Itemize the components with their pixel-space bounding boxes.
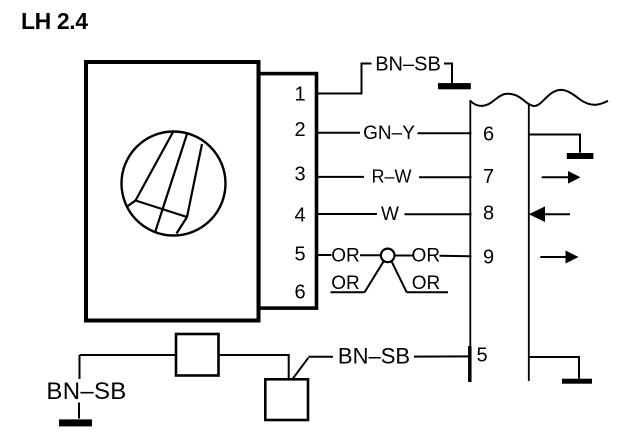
svg-text:7: 7 bbox=[483, 166, 494, 188]
wire diagonal from splice bbox=[392, 261, 407, 292]
connector block pins 1-6 bbox=[259, 74, 317, 309]
svg-text:OR: OR bbox=[331, 273, 360, 294]
svg-text:5: 5 bbox=[476, 345, 487, 367]
wire bottom left to relay box bbox=[80, 354, 177, 356]
svg-text:OR: OR bbox=[331, 246, 360, 267]
wire bbox=[418, 132, 472, 134]
ground (bottom left) bbox=[59, 419, 92, 426]
wire bbox=[395, 255, 413, 257]
svg-text:5: 5 bbox=[294, 244, 305, 266]
svg-text:BN–SB: BN–SB bbox=[338, 344, 410, 369]
wire diagonal to splice bbox=[365, 261, 384, 292]
signal arrow right (pin7 row) bbox=[542, 176, 568, 178]
svg-text:R–W: R–W bbox=[372, 167, 412, 187]
bus pin 5 contact mark bbox=[468, 346, 472, 382]
ground (pin5 row) bbox=[562, 379, 592, 384]
wire down to BN-SB ground (bottom left) bbox=[79, 355, 81, 379]
relay box 1 bbox=[176, 334, 219, 376]
wire relay box1 to box2 bbox=[219, 355, 289, 380]
relay box 2 bbox=[265, 379, 308, 420]
svg-text:8: 8 bbox=[483, 202, 494, 224]
ground (top right) bbox=[438, 83, 471, 89]
vane symbol lines bbox=[127, 132, 203, 234]
wire bbox=[419, 176, 472, 178]
svg-text:6: 6 bbox=[483, 123, 494, 145]
wire W pin4 to bus pin8 bbox=[316, 213, 378, 215]
svg-text:OR: OR bbox=[412, 273, 441, 294]
bus connector right line bbox=[528, 104, 530, 381]
svg-text:GN–Y: GN–Y bbox=[363, 123, 415, 144]
air mass meter box bbox=[86, 62, 259, 321]
wire bus pin6 to ground bbox=[530, 135, 581, 153]
wire bbox=[414, 355, 472, 357]
svg-text:4: 4 bbox=[294, 205, 305, 227]
wire pin6 OR left bbox=[331, 291, 365, 293]
wire bus pin5 to ground bbox=[530, 357, 580, 379]
wire BN-SB to bus pin5 bbox=[308, 356, 333, 358]
bus connector left line bbox=[469, 100, 471, 382]
wire bbox=[405, 213, 472, 215]
wire GN-Y pin2 to bus pin6 bbox=[316, 132, 361, 134]
svg-text:BN–SB: BN–SB bbox=[46, 378, 126, 405]
svg-text:W: W bbox=[381, 204, 399, 225]
wire bbox=[78, 403, 80, 419]
ground (pin6 row) bbox=[567, 153, 594, 159]
wire to bus pin9 bbox=[440, 255, 472, 257]
signal arrow right (pin9 row) bbox=[540, 256, 565, 258]
svg-text:9: 9 bbox=[483, 247, 494, 269]
svg-text:OR: OR bbox=[412, 246, 441, 267]
svg-text:2: 2 bbox=[294, 119, 305, 141]
wire bbox=[360, 254, 381, 256]
svg-text:1: 1 bbox=[294, 84, 305, 106]
wire pin6 OR right bbox=[407, 291, 448, 293]
wire OR pin5 to splice bbox=[316, 254, 332, 256]
svg-text:6: 6 bbox=[294, 281, 305, 303]
bus wavy break line bbox=[470, 90, 608, 106]
splice junction circle bbox=[381, 249, 395, 263]
signal arrow left (pin8 row) bbox=[529, 206, 545, 222]
svg-text:3: 3 bbox=[294, 164, 305, 186]
svg-text:LH 2.4: LH 2.4 bbox=[21, 8, 88, 34]
wire pin1 up to BN-SB bbox=[316, 64, 372, 94]
svg-text:BN–SB: BN–SB bbox=[375, 53, 441, 75]
air mass meter vane circle bbox=[122, 132, 226, 236]
wire diagonal into box2 bbox=[292, 358, 308, 380]
wire BN-SB to ground bbox=[444, 64, 452, 84]
wire R-W pin3 to bus pin7 bbox=[316, 176, 365, 178]
